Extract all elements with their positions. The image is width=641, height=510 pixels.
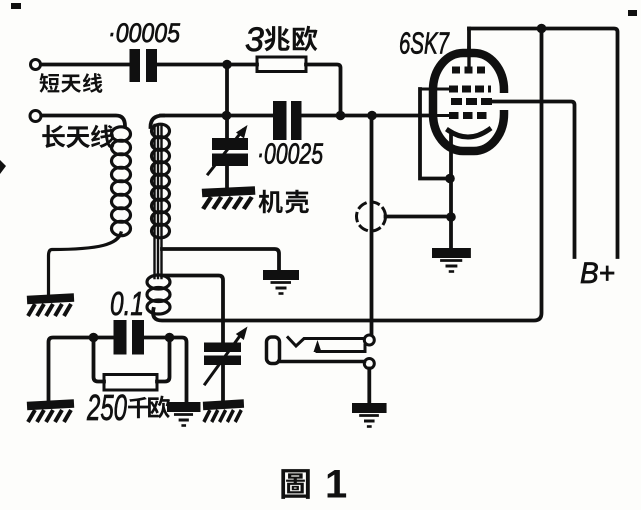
scan speck top-left — [0, 3, 637, 174]
junction: C3 right — [165, 333, 175, 343]
jack J1 sleeve line — [279, 360, 365, 364]
svg-text:250: 250 — [86, 387, 127, 428]
svg-text:3: 3 — [245, 21, 264, 59]
label 线 (antenna-2) — [83, 73, 103, 93]
junction: C3 left — [89, 333, 99, 343]
svg-text:·00025: ·00025 — [257, 139, 324, 171]
svg-text:·00005: ·00005 — [108, 18, 181, 48]
wire: network right leg to ground — [145, 338, 187, 403]
ground: chassis 机壳 — [202, 191, 255, 210]
jack J1 plug barrel — [267, 337, 280, 364]
capacitor C3 0.1 — [114, 320, 145, 355]
label 线 (antenna-2) — [91, 125, 114, 149]
svg-text:1: 1 — [325, 463, 347, 507]
label 短 (short) — [40, 73, 60, 93]
wire: short antenna to C1 — [41, 63, 129, 67]
ground: jack sleeve — [352, 408, 387, 427]
wire: resistor R2 left riser — [94, 338, 105, 382]
svg-text:B+: B+ — [580, 257, 615, 290]
variable capacitor C4 arrow — [208, 130, 243, 174]
junction: bus / node A branch — [222, 111, 232, 121]
variable capacitor C5 plates — [204, 343, 241, 366]
variable capacitor C5 arrow — [205, 333, 242, 384]
wire: plate top lead — [467, 29, 471, 68]
label 壳 (chassis-2) — [285, 190, 309, 214]
wire: feedback loop to tickler — [153, 29, 541, 321]
tube grid G1 element — [449, 112, 490, 119]
wire: plate bus to B+ — [469, 29, 618, 258]
tube grid G2 element — [451, 98, 494, 105]
junction: plug tap / cathode — [446, 212, 456, 222]
wire: plate lead inside — [467, 48, 470, 67]
transformer T1 secondary winding — [152, 124, 170, 238]
label 兆 (mega) — [264, 26, 289, 51]
label 天 (antenna-1) — [66, 126, 90, 148]
tube plate element — [452, 67, 489, 74]
junction: feedback tap — [537, 24, 547, 34]
wire: G1 lead to bus — [429, 114, 452, 117]
wire: network left leg to ground — [49, 338, 114, 402]
terminal: short antenna binding post — [31, 60, 41, 70]
wire: tickler tap to trimmer C5 — [162, 276, 223, 344]
wire: G3 lead to bracket — [420, 88, 450, 91]
inductor L1 primary winding — [112, 127, 131, 236]
wire: jack sleeve to ground — [367, 369, 371, 404]
wire: C1 to resistor R1 — [157, 63, 257, 67]
wire: bus down to trimmer C4 — [225, 116, 229, 140]
phono plug point (dashed circle) — [357, 202, 386, 231]
transformer T1 tickler winding — [147, 275, 170, 314]
junction: bracket / cathode — [445, 174, 455, 184]
junction: bus / jack branch — [367, 111, 377, 121]
label 机 (chassis-1) — [259, 190, 283, 213]
wire: resistor R2 right riser — [157, 338, 170, 382]
wire: suppressor bracket — [420, 89, 449, 179]
svg-text:6SK7: 6SK7 — [399, 26, 450, 61]
jack J1 lower contact — [317, 345, 365, 352]
wire: R1 right down to grid bus — [306, 65, 341, 117]
terminal: long antenna binding post — [30, 111, 41, 122]
wire: grid bus right of C2 — [302, 114, 434, 118]
jack J1 sleeve terminal — [364, 359, 374, 369]
capacitor C1 .00005 — [130, 49, 158, 82]
wire: node A down to grid bus — [225, 65, 229, 117]
label 圖 (figure) — [281, 469, 309, 499]
tube 6SK7 envelope — [433, 53, 504, 151]
resistor R1 3M body — [257, 57, 306, 72]
label 欧 (ohm) — [148, 396, 170, 419]
wire: cathode down to ground — [449, 135, 453, 250]
ground: cathode — [432, 253, 471, 272]
wire: long antenna to primary coil — [42, 116, 126, 127]
label 长 (long) — [42, 125, 65, 148]
wire: secondary tap to ground — [162, 249, 279, 272]
ground: trimmer C5 — [203, 404, 244, 423]
ground: network right — [167, 407, 200, 426]
label 天 (antenna-1) — [61, 75, 81, 93]
label 欧 (ohm) — [293, 26, 318, 52]
wire: trimmer C5 to ground — [221, 365, 225, 401]
svg-text:0.1: 0.1 — [110, 285, 144, 322]
tube cathode — [449, 130, 490, 138]
transformer T1 secondary lead-in — [151, 116, 164, 128]
junction: bus / R1 branch — [336, 111, 346, 121]
label 千 (kilo) — [128, 397, 149, 418]
wire: primary coil bottom to ground — [49, 233, 122, 294]
wire: screen lead to B+ — [489, 102, 575, 258]
ground: secondary tap — [263, 275, 299, 294]
wire: bus junction down to jack — [370, 116, 374, 337]
resistor R2 250k body — [104, 375, 157, 391]
junction node A — [222, 60, 232, 70]
ground: network left — [27, 404, 74, 423]
white notch in envelope for screen lead — [497, 93, 511, 110]
transformer core lines — [155, 125, 162, 278]
jack J1 tip spring contact — [288, 338, 364, 347]
ground: primary coil return — [27, 298, 74, 317]
variable capacitor C4 plates — [212, 138, 248, 166]
wire: trimmer C4 to chassis ground — [225, 166, 229, 189]
jack J1 tip terminal — [364, 335, 374, 345]
wire: grid bus left of C2 — [161, 114, 273, 118]
tube grid G3 element — [449, 86, 491, 93]
wire: plug point to cathode — [386, 215, 452, 219]
capacitor C2 .00025 — [273, 101, 302, 140]
